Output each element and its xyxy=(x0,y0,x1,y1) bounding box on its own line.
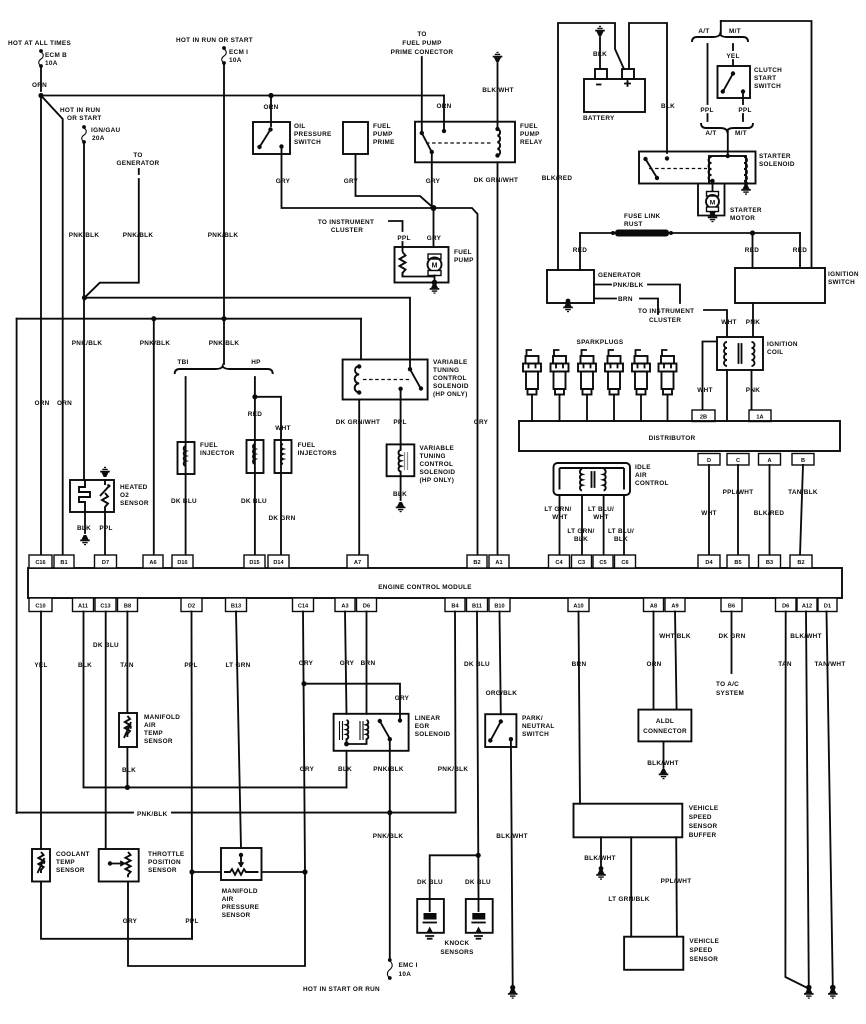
svg-text:SYSTEM: SYSTEM xyxy=(716,690,744,697)
svg-text:SWITCH: SWITCH xyxy=(522,731,549,738)
svg-text:C6: C6 xyxy=(621,560,628,566)
terminal C10 xyxy=(29,598,52,612)
svg-text:(HP ONLY): (HP ONLY) xyxy=(433,391,468,398)
oil pressure switch box xyxy=(253,122,290,154)
svg-text:DISTRIBUTOR: DISTRIBUTOR xyxy=(649,435,696,442)
wire coil PNK to 1A xyxy=(751,370,753,410)
wire IAC to C4 xyxy=(559,495,561,555)
svg-text:COIL: COIL xyxy=(767,349,783,356)
ground (starter solenoid) xyxy=(741,185,751,195)
sensor CTS coolant temp box xyxy=(32,849,50,882)
svg-text:WHT: WHT xyxy=(593,514,608,521)
wire IAC to C3 xyxy=(581,495,583,555)
svg-text:GRY: GRY xyxy=(427,235,442,242)
terminal D1 xyxy=(818,598,837,612)
wire GRY branch to EGR right terminal xyxy=(304,684,400,721)
svg-text:CONTROL: CONTROL xyxy=(420,461,454,468)
idle air control box xyxy=(554,463,631,495)
svg-text:KNOCK: KNOCK xyxy=(445,940,470,947)
svg-text:A/T: A/T xyxy=(698,28,709,35)
svg-text:TAN/WHT: TAN/WHT xyxy=(814,661,845,668)
wire O2 BLK to ground xyxy=(84,512,86,533)
svg-text:A: A xyxy=(767,458,771,464)
wire fuse link right corner to ignition switch xyxy=(799,233,801,268)
svg-text:TBI: TBI xyxy=(177,359,188,366)
ground (O2 bottom) xyxy=(80,535,90,545)
wire B to B2 TAN/BLK xyxy=(800,465,803,555)
svg-text:ECM B: ECM B xyxy=(45,52,67,59)
svg-text:BLK/WHT: BLK/WHT xyxy=(482,87,514,94)
terminal B2 (dist) xyxy=(790,555,812,568)
wire B11 DK BLU to knock sensors xyxy=(477,612,479,900)
svg-text:ECM I: ECM I xyxy=(229,49,248,56)
svg-text:BLK: BLK xyxy=(77,525,91,532)
svg-text:D6: D6 xyxy=(363,604,370,610)
svg-text:MANIFOLD: MANIFOLD xyxy=(144,714,180,721)
terminal D15 xyxy=(244,555,265,568)
svg-text:A7: A7 xyxy=(354,560,361,566)
svg-text:TO: TO xyxy=(417,31,426,38)
svg-text:ORN: ORN xyxy=(57,400,72,407)
wire ORN to OPS xyxy=(270,96,272,127)
terminal B10 xyxy=(489,598,510,612)
wire branch to knock sensor 1 xyxy=(430,855,479,899)
terminal B8 xyxy=(118,598,138,612)
terminal 1A xyxy=(749,410,771,422)
svg-text:D14: D14 xyxy=(273,560,284,566)
svg-text:NEUTRAL: NEUTRAL xyxy=(522,723,555,730)
svg-text:BLK/WHT: BLK/WHT xyxy=(496,833,528,840)
solenoid VTC (HP only) relay-style box xyxy=(343,360,428,400)
svg-text:TO A/C: TO A/C xyxy=(716,681,739,688)
wire ALDL BLK/WHT to ground xyxy=(663,741,665,768)
wire M/T YEL dashed xyxy=(732,44,734,66)
svg-text:FUEL: FUEL xyxy=(298,442,316,449)
terminal B4 xyxy=(445,598,465,612)
wire generator BRN stub xyxy=(594,299,658,315)
svg-text:BLK: BLK xyxy=(614,536,628,543)
wire OPS GRY down-right to pump junction xyxy=(282,148,434,208)
svg-text:B13: B13 xyxy=(231,604,241,610)
svg-text:B: B xyxy=(801,458,805,464)
terminal D14 xyxy=(268,555,289,568)
svg-text:BLK/RED: BLK/RED xyxy=(542,175,573,182)
svg-text:PPL: PPL xyxy=(393,419,406,426)
wire A9 WHT/BLK to ALDL xyxy=(675,612,677,710)
svg-text:HEATED: HEATED xyxy=(120,484,148,491)
terminal C5 xyxy=(593,555,613,568)
svg-text:A11: A11 xyxy=(78,604,88,610)
svg-text:D: D xyxy=(707,458,711,464)
svg-text:ORN: ORN xyxy=(436,103,451,110)
wire prime conector drop into relay xyxy=(421,57,423,133)
svg-text:C5: C5 xyxy=(599,560,606,566)
terminal C xyxy=(727,454,749,466)
svg-text:B2: B2 xyxy=(797,560,804,566)
svg-text:YEL: YEL xyxy=(726,53,739,60)
svg-text:D4: D4 xyxy=(705,560,713,566)
wire bus right end drop to VTC coil xyxy=(360,319,362,360)
terminal B3 xyxy=(759,555,781,568)
wire MAT BLK to ground bus xyxy=(126,747,128,787)
sensor MAP manifold air pressure box xyxy=(221,848,262,880)
svg-text:B8: B8 xyxy=(124,604,131,610)
wire coil center tap to distributor xyxy=(726,370,728,421)
box vehicle speed sensor buffer xyxy=(574,804,683,838)
injector L2 box xyxy=(247,440,264,473)
svg-text:GENERATOR: GENERATOR xyxy=(598,272,641,279)
svg-text:IGNITION: IGNITION xyxy=(828,271,859,278)
svg-text:OR START: OR START xyxy=(67,115,102,122)
wire B4 PNK/BLK drop xyxy=(454,612,457,813)
terminal C16 xyxy=(29,555,52,568)
wire A12 BLK/WHT to ground xyxy=(806,612,809,989)
svg-text:EGR: EGR xyxy=(415,723,430,730)
node ORN tap to oil pressure switch xyxy=(268,93,273,98)
svg-text:BLK: BLK xyxy=(122,767,136,774)
fuel pump motor M1 xyxy=(428,254,441,259)
svg-text:CLUTCH: CLUTCH xyxy=(754,67,782,74)
wire O2 PPL to D7 xyxy=(104,512,106,555)
wire VTC switch PPL down xyxy=(400,391,402,444)
svg-text:CLUSTER: CLUSTER xyxy=(649,317,681,324)
svg-text:VARIABLE: VARIABLE xyxy=(420,445,455,452)
oil pressure switch contacts xyxy=(268,127,272,131)
wire right border top xyxy=(721,21,812,268)
wire left border drop xyxy=(16,319,18,813)
node knock sensor branch xyxy=(476,853,481,858)
svg-text:RUST: RUST xyxy=(624,221,643,228)
fuel pump box xyxy=(395,247,449,283)
svg-text:GRY: GRY xyxy=(299,660,314,667)
terminal D6 (right) xyxy=(776,598,797,612)
wire C14 GRY down xyxy=(303,612,305,872)
svg-text:PNK/BLK: PNK/BLK xyxy=(209,340,240,347)
wire brace to starter solenoid xyxy=(727,131,729,156)
svg-text:BLK/WHT: BLK/WHT xyxy=(790,633,822,640)
wire C13 DK BLU to TPS xyxy=(105,612,107,850)
VTC dashed link xyxy=(363,379,409,381)
svg-text:SWITCH: SWITCH xyxy=(754,83,781,90)
terminal C6 xyxy=(615,555,636,568)
svg-text:SOLENOID: SOLENOID xyxy=(415,731,451,738)
wire A/T PPL solid xyxy=(707,44,709,104)
wire dashed stubs to lower brace xyxy=(708,114,744,121)
svg-text:THROTTLE: THROTTLE xyxy=(148,851,185,858)
svg-text:RED: RED xyxy=(793,247,807,254)
terminal B5 xyxy=(727,555,749,568)
svg-text:HOT IN RUN: HOT IN RUN xyxy=(60,107,100,114)
brace A/T-M/T top xyxy=(692,34,748,42)
svg-text:OIL: OIL xyxy=(294,123,306,130)
wire instrument cluster bracket to WHT xyxy=(704,310,727,337)
svg-text:CONTROL: CONTROL xyxy=(635,480,669,487)
terminal A8 xyxy=(644,598,664,612)
terminal D16 xyxy=(172,555,193,568)
wire P/N switch BLK/WHT to ground xyxy=(511,741,513,986)
wire B6 DK GRN stub to A/C xyxy=(731,612,733,674)
svg-text:START: START xyxy=(754,75,776,82)
svg-text:HOT AT ALL TIMES: HOT AT ALL TIMES xyxy=(8,40,71,47)
node bus to injector brace xyxy=(221,316,226,321)
wire battery neg xyxy=(599,37,601,69)
svg-text:SENSOR: SENSOR xyxy=(144,738,173,745)
terminal A12 xyxy=(797,598,817,612)
svg-text:D15: D15 xyxy=(249,560,259,566)
wire ORN bus corner into relay xyxy=(443,96,445,131)
svg-text:SPARKPLUGS: SPARKPLUGS xyxy=(577,339,624,346)
ground (fuel pump) xyxy=(430,284,440,294)
svg-text:PARK/: PARK/ xyxy=(522,715,543,722)
svg-text:BLK: BLK xyxy=(78,662,92,669)
svg-text:FUEL: FUEL xyxy=(520,123,538,130)
svg-text:TAN: TAN xyxy=(778,661,792,668)
ground (BLK/WHT top, inverted) xyxy=(493,52,503,62)
terminal C3 xyxy=(572,555,592,568)
sensor knock sensor 2 box xyxy=(466,899,493,933)
svg-text:LT BLU/: LT BLU/ xyxy=(608,528,634,535)
wire TO GENERATOR drop to junction xyxy=(85,179,139,298)
ground (battery negative, inverted above) xyxy=(595,26,605,36)
svg-text:A8: A8 xyxy=(650,604,657,610)
wire buffer LT GRN/BLK to VSS xyxy=(630,837,632,936)
svg-text:B2: B2 xyxy=(473,560,480,566)
ignition coil T1 box xyxy=(717,337,763,370)
svg-text:A10: A10 xyxy=(573,604,583,610)
wire solenoid to starter motor xyxy=(712,181,714,192)
svg-text:SOLENOID: SOLENOID xyxy=(433,383,469,390)
svg-text:DK GRN/WHT: DK GRN/WHT xyxy=(474,177,519,184)
svg-text:M/T: M/T xyxy=(729,28,741,35)
svg-text:IDLE: IDLE xyxy=(635,464,651,471)
svg-text:MANIFOLD: MANIFOLD xyxy=(222,888,258,895)
O2 heater element xyxy=(79,480,90,512)
ground (VTC2) xyxy=(396,502,406,512)
wire relay GRY output to junction xyxy=(431,154,433,208)
svg-text:SPEED: SPEED xyxy=(689,814,712,821)
wire HP injector line xyxy=(254,377,256,555)
switch park/neutral box xyxy=(485,714,516,747)
svg-text:LINEAR: LINEAR xyxy=(415,715,441,722)
svg-text:B5: B5 xyxy=(734,560,741,566)
terminal B6 xyxy=(721,598,742,612)
svg-text:BLK: BLK xyxy=(393,491,407,498)
wire TPS GRY loop to C14 line xyxy=(128,872,305,967)
wire DK GRN/WHT relay to ECM A1 xyxy=(497,162,499,555)
svg-text:10A: 10A xyxy=(229,57,242,64)
svg-text:INJECTORS: INJECTORS xyxy=(298,450,338,457)
svg-text:CONTROL: CONTROL xyxy=(433,375,467,382)
fuse link F1 thick bar xyxy=(615,230,669,237)
relay U1 fuel pump relay box xyxy=(415,122,515,163)
wire VTC coil DK GRN/WHT to A7 xyxy=(358,400,360,556)
svg-text:SENSOR: SENSOR xyxy=(56,867,85,874)
svg-text:RED: RED xyxy=(745,247,759,254)
svg-text:PRIME CONECTOR: PRIME CONECTOR xyxy=(391,49,454,56)
svg-text:RELAY: RELAY xyxy=(520,139,543,146)
wire clutch switch output xyxy=(742,93,744,104)
ground (P/N switch) xyxy=(510,985,515,990)
svg-text:TO INSTRUMENT: TO INSTRUMENT xyxy=(318,219,374,226)
svg-text:CONNECTOR: CONNECTOR xyxy=(643,728,687,735)
svg-text:LT BLU/: LT BLU/ xyxy=(588,506,614,513)
terminal D7 xyxy=(95,555,117,568)
node fuel pump ground dot xyxy=(432,280,438,286)
node EGR coil bottoms joined xyxy=(344,742,349,747)
svg-text:TAN/BLK: TAN/BLK xyxy=(788,489,818,496)
EGR coil 2 with core xyxy=(360,721,363,740)
svg-text:DK GRN: DK GRN xyxy=(718,633,745,640)
svg-text:D1: D1 xyxy=(824,604,831,610)
svg-text:TUNING: TUNING xyxy=(433,367,459,374)
wire buffer PPL/WHT to VSS xyxy=(675,837,678,936)
terminal C4 xyxy=(549,555,570,568)
wire RED drop to ignition switch xyxy=(752,233,754,268)
relay coil xyxy=(498,129,501,155)
starter solenoid switch xyxy=(643,157,647,161)
node EMC feed junction xyxy=(387,810,392,815)
svg-text:PNK/BLK: PNK/BLK xyxy=(123,232,154,239)
svg-text:DK BLU: DK BLU xyxy=(417,879,443,886)
svg-text:A/T: A/T xyxy=(705,130,716,137)
svg-text:BRN: BRN xyxy=(618,296,633,303)
svg-text:TAN: TAN xyxy=(120,662,134,669)
wire battery pos to starter solenoid BLK xyxy=(629,23,667,153)
wire IAC to C5 xyxy=(603,495,605,555)
ignition coil windings xyxy=(724,342,727,366)
svg-text:PUMP: PUMP xyxy=(454,257,474,264)
ground (TAN/WHT) xyxy=(830,985,836,991)
svg-text:PNK/BLK: PNK/BLK xyxy=(72,340,103,347)
svg-text:WHT: WHT xyxy=(697,387,712,394)
svg-text:WHT: WHT xyxy=(552,514,567,521)
battery B1 xyxy=(584,79,645,112)
svg-text:AIR: AIR xyxy=(144,722,156,729)
svg-text:STARTER: STARTER xyxy=(730,207,762,214)
wire fuse link run xyxy=(580,232,800,234)
svg-text:SENSOR: SENSOR xyxy=(120,500,149,507)
ignition switch box xyxy=(735,268,825,303)
wire A8 ORN to ALDL xyxy=(653,612,655,710)
wire B8 TAN to MAT sensor xyxy=(126,612,128,714)
svg-text:ALDL: ALDL xyxy=(656,718,674,725)
svg-text:LT GRN/BLK: LT GRN/BLK xyxy=(608,896,649,903)
svg-text:PPL: PPL xyxy=(700,107,713,114)
svg-text:BRN: BRN xyxy=(361,660,376,667)
svg-text:A12: A12 xyxy=(802,604,812,610)
svg-text:A9: A9 xyxy=(671,604,678,610)
svg-text:10A: 10A xyxy=(399,971,412,978)
node PNK/BLK junction xyxy=(82,295,87,300)
sparkplug P1 xyxy=(523,350,541,421)
terminal B11 xyxy=(467,598,488,612)
wire D2 PPL down through MAP junction xyxy=(191,612,194,939)
svg-text:PUMP: PUMP xyxy=(373,131,393,138)
terminal D2 xyxy=(181,598,202,612)
svg-text:PRESSURE: PRESSURE xyxy=(294,131,332,138)
svg-text:O2: O2 xyxy=(120,492,129,499)
wire ORN bus horizontal xyxy=(41,95,444,97)
idle air control coils xyxy=(580,469,582,491)
svg-text:D2: D2 xyxy=(188,604,195,610)
svg-text:PNK/BLK: PNK/BLK xyxy=(438,766,469,773)
wire battery pos to BLK/RED left loop xyxy=(558,23,624,270)
ground (TAN + BLK/WHT) xyxy=(806,985,812,991)
svg-text:FUSE LINK: FUSE LINK xyxy=(624,213,661,220)
wire ECM I drop to PNK/BLK bus xyxy=(223,63,225,319)
svg-text:IGNITION: IGNITION xyxy=(767,341,798,348)
starter motor bracket xyxy=(698,184,725,216)
wire A3 GRY to EGR coil 1 xyxy=(345,612,347,714)
svg-text:AIR: AIR xyxy=(222,896,234,903)
terminal A1 xyxy=(489,555,509,568)
wire A11 BLK to ground bus xyxy=(84,612,347,788)
svg-text:DK BLU: DK BLU xyxy=(464,661,490,668)
svg-text:IGN/GAU: IGN/GAU xyxy=(91,127,121,134)
svg-text:M/T: M/T xyxy=(735,130,747,137)
svg-text:PPL: PPL xyxy=(738,107,751,114)
svg-text:SOLENOID: SOLENOID xyxy=(759,161,795,168)
svg-text:VARIABLE: VARIABLE xyxy=(433,359,468,366)
wire feed to A/T-M/T brace xyxy=(720,21,722,34)
wire PNK/BLK bottom bus xyxy=(17,812,456,814)
generator box xyxy=(547,270,594,303)
svg-text:DK BLU: DK BLU xyxy=(93,642,119,649)
ECM U10 engine control module box xyxy=(28,568,842,598)
brace TBI-HP xyxy=(175,366,273,374)
svg-text:TO: TO xyxy=(133,152,142,159)
svg-text:WHT: WHT xyxy=(721,319,736,326)
svg-text:DK BLU: DK BLU xyxy=(171,498,197,505)
svg-text:C16: C16 xyxy=(35,560,45,566)
fuse EMC I 10A xyxy=(388,958,392,962)
svg-text:B3: B3 xyxy=(766,560,773,566)
svg-text:PNK/BLK: PNK/BLK xyxy=(373,833,404,840)
svg-text:FUEL: FUEL xyxy=(373,123,391,130)
O2 sensing element xyxy=(100,480,110,512)
svg-text:D7: D7 xyxy=(102,560,109,566)
svg-text:VEHICLE: VEHICLE xyxy=(689,805,719,812)
fuel pump resistor xyxy=(400,252,406,277)
svg-text:AIR: AIR xyxy=(635,472,647,479)
EGR switch xyxy=(378,719,382,723)
svg-text:PNK/BLK: PNK/BLK xyxy=(373,766,404,773)
svg-text:GRY: GRY xyxy=(344,178,359,185)
wire ORN drop to C16 xyxy=(40,96,42,556)
svg-text:PPL: PPL xyxy=(184,662,197,669)
svg-text:DK BLU: DK BLU xyxy=(465,879,491,886)
svg-text:CLUSTER: CLUSTER xyxy=(331,227,363,234)
node HP branch xyxy=(252,394,257,399)
terminal A9 xyxy=(665,598,685,612)
svg-text:LT GRN/: LT GRN/ xyxy=(544,506,571,513)
wire bus drop to A6 xyxy=(153,319,155,555)
node solenoid BLK entry xyxy=(665,156,669,160)
wire PNK/BLK lower bus xyxy=(17,318,361,320)
svg-text:SENSOR: SENSOR xyxy=(689,823,718,830)
svg-text:A3: A3 xyxy=(341,604,348,610)
wire TBI injector line xyxy=(185,377,187,555)
terminal D xyxy=(698,454,720,466)
terminal B2 xyxy=(467,555,487,568)
svg-text:EMC I: EMC I xyxy=(399,962,418,969)
svg-text:GRY: GRY xyxy=(474,419,489,426)
svg-text:DK GRN: DK GRN xyxy=(268,515,295,522)
wire BLK/WHT ground to relay coil xyxy=(497,63,499,129)
svg-text:YEL: YEL xyxy=(34,662,47,669)
ground (generator) xyxy=(566,299,571,304)
wire CTS bottom loop to PPL xyxy=(41,872,192,939)
